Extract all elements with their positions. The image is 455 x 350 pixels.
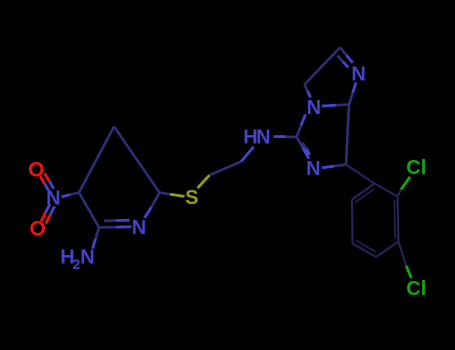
svg-text:Cl: Cl	[406, 278, 426, 300]
svg-text:Cl: Cl	[406, 157, 426, 179]
svg-text:S: S	[185, 187, 198, 209]
svg-text:N: N	[351, 63, 365, 85]
svg-text:N: N	[256, 127, 270, 149]
svg-text:N: N	[306, 158, 320, 180]
svg-text:N: N	[307, 97, 321, 119]
svg-text:O: O	[30, 218, 46, 241]
svg-text:O: O	[28, 159, 44, 182]
svg-text:N: N	[80, 247, 94, 269]
svg-text:N: N	[132, 217, 146, 239]
svg-text:N: N	[46, 188, 60, 210]
